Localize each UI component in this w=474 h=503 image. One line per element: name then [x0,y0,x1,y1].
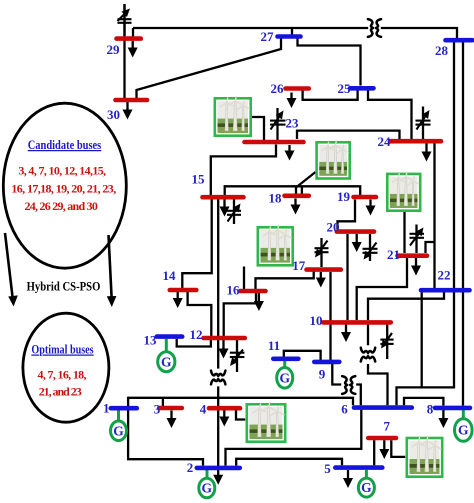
wire 10 to transformer T4 [367,325,369,346]
svg-text:21, and 23: 21, and 23 [39,385,82,399]
load arrow at bus 2 [213,470,223,485]
wind turbine photo at bus 4 [247,402,285,442]
text Hybrid CS-PSO [27,280,101,294]
svg-text:17: 17 [292,258,306,273]
wire 22 stub to line A [421,292,423,387]
wire 25-24 [368,91,412,140]
arrow candidate-to-optimal left [5,233,18,307]
wire 17-10-9 [329,272,331,360]
svg-text:27: 27 [261,29,275,44]
bus 27 label [261,29,275,44]
text candidate bus list [11,164,116,214]
text Candidate buses [28,138,102,152]
svg-text:3: 3 [154,402,161,417]
wire 29-30 with SVC riser [123,4,125,98]
wire 15-14 [182,199,211,288]
generator stub at bus 1 [117,410,120,421]
bus 2 bar [197,466,240,471]
svg-text:G: G [458,423,469,438]
wire 15-23 [211,145,276,196]
svg-text:15: 15 [192,172,206,187]
wind turbine photo at bus 7 [407,435,442,476]
bus 29 bar [117,36,141,41]
bus 11 bar [273,356,298,361]
bus 9 bar [314,360,339,365]
svg-text:18: 18 [269,191,283,206]
bus 4 label [200,402,207,417]
load arrow at bus 23 [285,145,295,161]
bus 13 label [144,333,158,348]
load arrow at bus 24 [422,144,432,162]
load arrow at bus 3 [167,411,177,429]
generator G at bus 1 [111,421,127,441]
svg-text:25: 25 [338,81,352,96]
svg-text:10: 10 [310,313,323,328]
bus 24 bar [391,139,442,144]
bus 25 label [338,81,352,96]
svg-text:16, 17,18, 19, 20, 21, 23,: 16, 17,18, 19, 20, 21, 23, [11,182,116,196]
load arrow at bus 19 [366,200,376,216]
wire 11-9 [284,351,321,360]
bus 15 label [192,172,206,187]
candidate buses ellipse [3,103,126,268]
SVC shunt compensator at bus 15 [227,199,241,224]
wire 14-12 [188,292,212,336]
load arrow at bus 8 [438,410,448,428]
bus 5 bar [335,465,382,470]
load arrow at bus 12 [219,340,229,359]
SVC shunt compensator at bus 24 [416,107,431,140]
svg-text:G: G [279,370,290,385]
wire top line right of transformer [381,28,457,39]
wire top line 29-27-28 left of transformer [133,27,368,29]
wire image link 4 [236,411,245,420]
bus 8 bar [435,406,470,411]
bus 11 label [268,338,280,353]
svg-text:G: G [202,481,213,496]
load arrow at bus 17 [316,272,326,288]
bus 29 label [107,42,121,57]
generator stub at bus 2 [206,470,209,479]
bus 15 bar [203,195,244,200]
bus 23 label [286,116,300,131]
wire T4 to 6 [368,364,388,405]
load arrow at bus 16 [254,293,264,311]
svg-text:Candidate buses: Candidate buses [28,138,102,152]
SVC shunt compensator at bus 17 [315,238,329,267]
optimal buses ellipse [23,313,109,422]
generator G at bus 11 [277,368,293,389]
generator G at bus 2 [199,478,215,498]
bus 18 bar [285,194,309,199]
transformer 12-4 tie [211,371,225,385]
wire 23-24 [297,131,400,139]
bus 30 label [107,107,120,122]
wire 28-8 long vertical B [462,42,464,406]
transformer 6-9 tie [342,376,355,394]
bus 26 bar [286,86,309,91]
bus 14 label [163,268,177,283]
bus 4 bar [209,406,240,411]
wire image link 7 [391,440,405,457]
load arrow at bus 5 [343,470,353,488]
svg-text:6: 6 [341,402,348,417]
bus 16 bar [240,289,266,294]
svg-text:2: 2 [187,460,194,475]
wire 22-10 [368,292,444,320]
bus 17 label [292,258,306,273]
bus 21 bar [398,253,428,258]
wind turbine photo at bus 16 [258,225,293,265]
bus 20 bar [337,229,374,234]
load arrow at bus 26 [287,93,297,109]
wire T3 to 4 [217,386,219,406]
bus 22 bar [421,288,470,293]
svg-text:24: 24 [378,134,392,149]
wire image link 18 [296,172,316,194]
svg-text:12: 12 [190,327,203,342]
generator stub at bus 5 [365,470,368,479]
wire 21-10 [357,258,407,320]
wire 26-25 [303,91,358,100]
wire 2-6 [226,410,362,466]
generator G at bus 8 [455,419,473,442]
bus 6 label [341,402,348,417]
wire 21-22 [426,242,435,253]
load arrow at bus 21 [411,258,421,276]
wire 18 stub to 15-19 line [301,186,303,194]
generator G at bus 13 [158,352,175,372]
generator stub at bus 8 [462,410,465,419]
svg-text:G: G [361,480,372,495]
wire 15-18-19 [225,186,361,195]
svg-text:16: 16 [227,283,241,298]
bus 3 label [154,402,161,417]
bus 23 bar [245,140,304,145]
load arrow at bus 20 [352,234,362,252]
bus 1 bar [111,406,137,411]
load arrow at bus 14 [173,292,183,308]
svg-text:7: 7 [384,419,391,434]
bus 12 bar [204,336,245,341]
bus 3 bar [159,406,182,411]
wire 12 to transformer T3 [217,340,219,369]
transformer 27-28 tie [368,19,381,37]
bus 9 label [319,367,326,382]
svg-text:Optimal buses: Optimal buses [31,343,93,357]
wire top line 1-3-4-6 [128,398,353,406]
svg-text:24, 26 29, and 30: 24, 26 29, and 30 [25,199,98,213]
wire 1-2 [128,411,203,466]
bus 26 label [271,81,285,96]
transformer 10-6 tie [361,348,375,362]
SVC shunt compensator at bus 29 [118,4,132,36]
svg-text:8: 8 [427,402,434,417]
load arrow at bus 30 [123,102,133,120]
bus 13 bar [157,334,182,339]
bus 21 label [387,247,400,262]
svg-text:26: 26 [271,81,285,96]
svg-text:G: G [161,354,172,369]
wire 27 stub to top line [291,28,293,35]
svg-text:29: 29 [107,42,121,57]
bus 12 label [190,327,203,342]
svg-text:11: 11 [268,338,280,353]
load arrow at bus 15 [220,199,230,217]
wire 29 to top line [132,28,134,40]
generator G at bus 5 [358,478,374,497]
bus 18 label [269,191,283,206]
SVC shunt compensator at bus 20 [363,234,378,261]
SVC shunt compensator at bus 21 [410,225,425,254]
bus 10 bar [323,320,391,325]
wire 17-16 [256,272,314,290]
svg-text:4, 7, 16, 18,: 4, 7, 16, 18, [38,368,87,382]
svg-text:23: 23 [286,116,300,131]
wind turbine photo at bus 23 [215,96,251,136]
svg-text:G: G [113,423,124,438]
wire 19-20 [338,200,356,230]
text Optimal buses [31,343,93,357]
bus 14 bar [170,288,197,293]
generator stub at bus 13 [165,339,168,352]
text optimal bus list [38,368,87,399]
SVC shunt compensator at bus 12 [230,340,245,372]
bus 22 label [438,268,451,283]
svg-text:9: 9 [319,367,326,382]
SVC shunt compensator at bus 10 [380,325,393,360]
load arrow at bus 4 [219,411,229,427]
svg-text:5: 5 [324,461,331,476]
bus 2 label [187,460,194,475]
bus 19 bar [354,195,377,200]
wire 2-5 [236,459,342,466]
bus 28 bar [446,38,473,43]
wire 20-10 [346,234,348,320]
svg-text:13: 13 [144,333,158,348]
bus 24 label [378,134,392,149]
wire 24-22 [433,143,435,288]
svg-text:28: 28 [435,43,449,58]
wire 15-12 [217,199,219,336]
arrow candidate-to-optimal right [107,235,117,307]
svg-text:14: 14 [163,268,177,283]
bus 17 bar [307,267,341,272]
generator stub at bus 11 [283,361,286,368]
wire 13-12 [177,339,211,347]
bus 19 label [337,189,351,204]
svg-text:3, 4, 7, 10, 12, 14,15,: 3, 4, 7, 10, 12, 14,15, [18,164,106,178]
bus 28 label [435,43,449,58]
wire 28-6 long vertical A [397,42,455,405]
SVC shunt compensator at bus 23 [270,108,286,140]
wire 30-27 diagonal [137,37,282,99]
wire T2 to 6 [356,385,361,406]
wind turbine photo at bus 21 [387,172,420,211]
bus 6 bar [354,405,412,410]
wind turbine photo at bus 18 [317,140,350,178]
wire 4-2 [217,410,219,466]
svg-text:4: 4 [200,402,207,417]
wire 3 stub to top line [162,398,164,406]
svg-text:20: 20 [327,220,340,235]
bus 1 label [103,401,110,416]
bus 25 bar [350,86,374,91]
wire 16-12 [224,293,256,336]
bus 7 label [384,419,391,434]
bus 27 bar [278,34,301,39]
svg-text:21: 21 [387,247,400,262]
wire 9 to transformer T2 [332,364,341,385]
bus 16 label [227,283,241,298]
svg-text:30: 30 [107,107,120,122]
svg-text:Hybrid CS-PSO: Hybrid CS-PSO [27,280,101,294]
bus 8 label [427,402,434,417]
bus 5 label [324,461,331,476]
bus 10 label [310,313,323,328]
svg-text:1: 1 [103,401,110,416]
wire image link 23 [252,117,264,140]
svg-text:22: 22 [438,268,451,283]
bus 30 bar [116,98,148,103]
svg-text:19: 19 [337,189,351,204]
load arrow at bus 18 [291,199,301,215]
bus 7 bar [368,436,396,441]
bus 20 label [327,220,340,235]
wire 27-25 [298,39,361,86]
load arrow at bus 7 [379,440,389,459]
wire 6-8 [404,398,443,406]
wire image link 16 [243,267,245,290]
load arrow at bus 29 [128,41,138,58]
wire 5-7 [373,440,375,465]
load arrow at bus 10 [341,325,351,343]
wire image link 21 [403,212,405,253]
